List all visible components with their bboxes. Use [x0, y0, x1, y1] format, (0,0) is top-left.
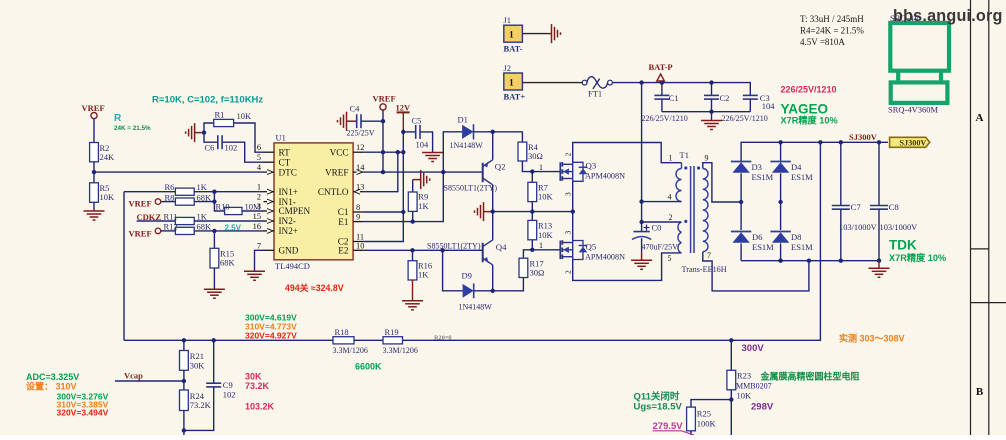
resistor R5 [90, 183, 99, 203]
svg-text:226/25V/1210: 226/25V/1210 [642, 114, 688, 123]
resistor R16 [408, 261, 417, 280]
junction Q4 emitter/D9 [491, 289, 495, 293]
svg-text:VCC: VCC [330, 147, 349, 157]
T1 primary winding 1-4 [676, 169, 682, 202]
svg-text:2: 2 [257, 193, 261, 202]
junction VCC [401, 150, 405, 154]
ground below C0 [641, 252, 643, 260]
svg-text:R12: R12 [164, 222, 178, 232]
transistor Q4 (S8550) [482, 243, 484, 262]
wire J2 to FT1 [522, 82, 582, 84]
svg-text:TL494CD: TL494CD [275, 261, 310, 271]
wire R9 top [412, 180, 414, 192]
junction Q2 emitter rail [491, 130, 495, 134]
svg-text:APM4008N: APM4008N [585, 253, 625, 262]
svg-text:R6: R6 [165, 182, 175, 192]
svg-text:CMPEN: CMPEN [279, 206, 311, 216]
wire Q3 drain [573, 143, 682, 163]
svg-text:IN1+: IN1+ [279, 187, 298, 197]
junction 300V node [729, 338, 733, 342]
resistor R13 [528, 220, 537, 239]
svg-text:Q2: Q2 [495, 162, 506, 172]
wire R7 top [531, 172, 533, 183]
svg-text:470uF/25V: 470uF/25V [642, 243, 679, 252]
wire D4 cathode [780, 142, 782, 162]
resistor R24 [180, 390, 189, 411]
svg-text:3: 3 [564, 192, 573, 196]
svg-text:7: 7 [257, 241, 261, 250]
svg-text:10M: 10M [245, 202, 262, 212]
wire R13 bottom [531, 240, 533, 250]
wire pin1 row left [124, 191, 175, 193]
svg-text:298V: 298V [751, 401, 774, 412]
resistor R2 [90, 143, 99, 162]
svg-text:225/25V: 225/25V [347, 128, 375, 137]
wire R25 bottom [690, 431, 692, 435]
sheet zone divider [971, 302, 1006, 304]
svg-text:R: R [114, 113, 122, 124]
capacitor C4 [356, 114, 358, 128]
svg-text:C7: C7 [851, 202, 862, 212]
wire jog to R10 [214, 192, 224, 211]
mosfet Q5 (APM4008N) [559, 241, 561, 260]
svg-text:1: 1 [539, 163, 543, 172]
wire D3 anode [740, 173, 742, 230]
resistor R4 [518, 142, 527, 161]
svg-text:BAT-P: BAT-P [649, 62, 673, 72]
svg-text:1: 1 [509, 79, 514, 89]
svg-text:SRQ-4V360M: SRQ-4V360M [888, 105, 939, 115]
svg-text:CT: CT [279, 157, 291, 167]
wire output bottom rail [741, 260, 879, 262]
svg-text:ADC=3.325V: ADC=3.325V [26, 372, 79, 382]
wire left sense riser [123, 192, 125, 341]
svg-text:B: B [976, 386, 984, 398]
svg-text:金属膜高精密圆柱型电阻: 金属膜高精密圆柱型电阻 [760, 371, 860, 382]
wire R10 to pin3 [242, 210, 264, 212]
wire D1 anode riser [443, 132, 462, 172]
resistor R15 [210, 248, 219, 268]
svg-text:226/25V/1210: 226/25V/1210 [781, 85, 837, 95]
diode D9 [463, 284, 474, 298]
ground below U1 pin7 [244, 270, 265, 272]
svg-text:R25: R25 [697, 408, 711, 418]
svg-text:VREF: VREF [373, 93, 396, 103]
svg-text:D1: D1 [458, 114, 468, 124]
junction C8 rail [877, 140, 881, 144]
junction VREF/pin14 [381, 170, 385, 174]
capacitor C5 [415, 125, 417, 139]
wire R12 to pin16 [194, 230, 263, 232]
junction R2/R5/DTC [92, 170, 96, 174]
wire D9 anode riser [443, 250, 463, 290]
junction T1 pin2 / C0 [639, 220, 643, 224]
resistor R8 [175, 198, 194, 205]
junction 298V node [729, 397, 733, 401]
capacitor C2 [711, 83, 713, 96]
wire Q5 source to T1 pin5 [573, 253, 682, 281]
svg-text:12V: 12V [396, 102, 412, 112]
svg-text:实测 303～308V: 实测 303～308V [839, 333, 905, 344]
U1 pins [264, 151, 275, 153]
svg-text:24K = 21.5%: 24K = 21.5% [114, 125, 151, 132]
resistor R17 [519, 258, 528, 277]
wire Q5 gate row [532, 249, 560, 251]
capacitor C6 [217, 135, 219, 149]
wire R17 top jog [523, 250, 532, 258]
svg-text:设置： 310V: 设置： 310V [26, 381, 77, 392]
svg-text:C9: C9 [223, 380, 233, 390]
wire T1 pin2 row [642, 221, 682, 223]
svg-text:16: 16 [253, 222, 261, 231]
junction Q3 source [571, 209, 575, 213]
svg-text:Q3: Q3 [586, 161, 597, 171]
wire Q4 collector up [492, 212, 494, 240]
svg-text:68K: 68K [220, 258, 236, 268]
svg-text:15: 15 [253, 212, 261, 221]
junction Q3 gate node [530, 169, 534, 173]
svg-text:1: 1 [539, 241, 543, 250]
svg-text:ES1M: ES1M [752, 172, 774, 182]
svg-text:C0: C0 [652, 222, 662, 232]
svg-text:10: 10 [356, 241, 364, 250]
svg-text:2: 2 [564, 153, 573, 157]
wire D1 cathode to rail [474, 131, 523, 133]
wire pin13 hook [364, 152, 398, 192]
svg-text:494关 ≈324.8V: 494关 ≈324.8V [285, 282, 344, 293]
wire Q2 emitter up [492, 132, 494, 160]
svg-text:320V=3.494V: 320V=3.494V [57, 407, 109, 417]
svg-text:R18: R18 [335, 327, 349, 337]
junction D9 riser tap [440, 248, 444, 252]
diode D6 [732, 232, 749, 243]
junction Vcap node [182, 379, 186, 383]
svg-text:A: A [976, 112, 984, 124]
svg-text:320V=4.927V: 320V=4.927V [245, 331, 297, 341]
ground at J1 (rotated) [549, 33, 552, 35]
wire C9 bottom [184, 387, 214, 431]
svg-text:R4=24K = 21.5%: R4=24K = 21.5% [800, 26, 864, 36]
svg-text:1K: 1K [418, 201, 429, 211]
svg-text:D3: D3 [752, 162, 762, 172]
capacitor C8 [870, 205, 888, 207]
wire Q5 drain [572, 212, 574, 241]
capacitor C1 [661, 83, 663, 96]
svg-text:R11: R11 [164, 212, 178, 222]
svg-text:C4: C4 [350, 104, 361, 114]
svg-text:bbs.angui.org: bbs.angui.org [893, 7, 1003, 25]
wire R21 column top [183, 340, 185, 350]
junction C9 tap [212, 338, 216, 342]
resistor R18 [333, 337, 354, 344]
wire D9 cathode row [474, 278, 524, 291]
resistor R23 [727, 370, 736, 390]
C0 plus sign [644, 225, 650, 231]
wire C4 to VREF column [361, 120, 383, 122]
junction R16 tap [410, 248, 414, 252]
svg-text:J2: J2 [504, 63, 512, 73]
junction C1 top [660, 80, 664, 84]
svg-text:X7R精度 10%: X7R精度 10% [781, 115, 838, 126]
power port BAT-P [657, 74, 665, 81]
wire Q3 source [572, 181, 574, 211]
svg-text:YAGEO: YAGEO [781, 102, 829, 117]
op-amp U1 body (TL494CD) [274, 143, 353, 260]
ground below R15 [204, 288, 225, 290]
wire R7 bottom [531, 202, 533, 212]
svg-text:SJ300V: SJ300V [900, 138, 927, 147]
svg-text:103/1000V: 103/1000V [880, 223, 918, 232]
svg-text:FT1: FT1 [588, 89, 602, 99]
svg-text:2: 2 [564, 270, 573, 274]
svg-text:103.2K: 103.2K [245, 402, 275, 412]
junction C1 out [401, 210, 405, 214]
junction C8 bottom [877, 259, 881, 263]
wire pin16 row to R15 [213, 231, 215, 248]
T1 winding2 dot [684, 220, 687, 223]
junction D4 rail [778, 140, 782, 144]
diode D3 [732, 162, 749, 173]
resistor R7 [528, 182, 537, 201]
svg-text:1K: 1K [197, 212, 208, 222]
mosfet Q3 (APM4008N) [559, 162, 561, 181]
wire T1 pin7 [703, 252, 809, 291]
svg-text:5: 5 [668, 254, 672, 263]
wire pin14 row to Q2 base [364, 171, 483, 173]
svg-text:10K: 10K [100, 192, 116, 202]
port SJ300V [890, 137, 930, 147]
svg-text:R1: R1 [215, 110, 225, 120]
svg-text:73.2K: 73.2K [245, 381, 270, 391]
svg-text:ES1M: ES1M [791, 172, 813, 182]
svg-text:30Ω: 30Ω [530, 268, 545, 278]
junction Q2/Q4 mid [491, 209, 495, 213]
resistor R21 [180, 351, 189, 371]
wire R9 bottom [412, 211, 414, 221]
wire ground node to C6 [204, 133, 218, 143]
wire Q3 gate row [532, 171, 560, 173]
svg-text:BAT-: BAT- [504, 44, 523, 54]
wire BAT+ riser to T1 center taps [641, 83, 643, 222]
wire ground node to R1 [204, 123, 214, 133]
junction R6/R8/R10 [212, 190, 216, 194]
capacitor C3 [743, 94, 758, 96]
VREF port circle [91, 113, 97, 119]
svg-text:APM4008N: APM4008N [585, 172, 625, 181]
svg-text:1: 1 [669, 153, 673, 162]
svg-text:D4: D4 [791, 162, 802, 172]
wire C5 to ground [420, 132, 433, 153]
svg-text:R8: R8 [165, 192, 175, 202]
resistor R10 [225, 207, 242, 214]
svg-text:3.3M/1206: 3.3M/1206 [383, 346, 418, 355]
svg-text:E1: E1 [338, 217, 349, 227]
wire R15 to ground [213, 268, 215, 289]
svg-text:ES1M: ES1M [752, 242, 774, 252]
wire C8 bottom [878, 209, 880, 261]
wire DTC row (pin4) [94, 171, 264, 173]
junction pin7 riser [807, 259, 811, 263]
T1 core [690, 166, 692, 253]
junction BAT+ riser [639, 80, 643, 84]
wire VCC/outputs column [364, 132, 404, 242]
svg-text:R=10K, C=102, f=110KHz: R=10K, C=102, f=110KHz [152, 95, 263, 106]
VREF mid circle [380, 104, 386, 110]
svg-text:J1: J1 [504, 15, 512, 25]
junction VREF/C4 [381, 119, 385, 123]
svg-text:1K: 1K [418, 270, 429, 280]
svg-text:3.3M/1206: 3.3M/1206 [333, 346, 368, 355]
wire R16 to ground [412, 280, 414, 301]
wire pin12 row [364, 151, 404, 153]
junction R1/C6/ground [202, 130, 206, 134]
resistor R19 [383, 337, 403, 344]
wire 12V row to C5 [403, 131, 415, 133]
svg-text:GND: GND [279, 246, 299, 256]
wire R4 bottom jog [522, 161, 532, 172]
junction D4/D8 [778, 200, 782, 204]
wire C9 column [213, 340, 215, 383]
ground at C4 (rotated) [346, 112, 348, 131]
svg-text:6: 6 [257, 143, 261, 152]
svg-text:11: 11 [356, 233, 364, 242]
T1 secondary winding 9-7 [703, 169, 708, 252]
wire pin9 row [364, 172, 444, 222]
wire pin7 to ground [255, 250, 264, 271]
svg-text:IN2+: IN2+ [279, 226, 298, 236]
svg-text:T1: T1 [680, 150, 689, 160]
sheet zone tick [971, 248, 989, 250]
svg-text:100K: 100K [697, 418, 717, 428]
resistor R11 [175, 217, 194, 224]
resistor R12 [175, 227, 194, 234]
junction C2 bottom [709, 110, 713, 114]
svg-text:9: 9 [356, 213, 360, 222]
wire 300V sense riser [124, 142, 820, 340]
svg-text:R10: R10 [216, 202, 230, 212]
svg-text:X7R精度 10%: X7R精度 10% [889, 252, 946, 263]
wire R8 right jog [194, 201, 214, 203]
ground below output rail [878, 261, 880, 269]
svg-text:DTC: DTC [279, 167, 297, 177]
sheet border outer line [988, 0, 990, 435]
connector J2 [504, 73, 523, 90]
T1 primary winding 2-5 [678, 222, 682, 253]
junction 12V node [401, 130, 405, 134]
wire R16 top [412, 250, 414, 260]
wire rail to R4 [521, 132, 523, 142]
svg-text:BAT+: BAT+ [504, 92, 526, 102]
wire D8 anode [780, 243, 782, 260]
component outline SRQ-4V360M [890, 23, 949, 71]
junction bottom left [182, 428, 186, 432]
junction VREF/VCC [381, 150, 385, 154]
svg-text:104: 104 [762, 101, 776, 111]
svg-text:D9: D9 [462, 270, 472, 280]
svg-text:104: 104 [416, 140, 430, 150]
svg-text:C1: C1 [669, 93, 679, 103]
svg-text:R23: R23 [737, 371, 751, 381]
ground at mid rail (rotated) [483, 202, 485, 221]
svg-text:C6: C6 [205, 143, 215, 153]
wire R1 to pin6 [234, 123, 264, 152]
svg-text:VREF: VREF [129, 199, 152, 209]
svg-text:73.2K: 73.2K [190, 400, 212, 410]
svg-text:10K: 10K [237, 111, 253, 121]
wire T1 pin9 [703, 163, 741, 202]
svg-text:Q4: Q4 [496, 242, 507, 252]
diode D4 [772, 162, 789, 173]
junction D1 anode tap [441, 170, 445, 174]
junction R7/R13 [530, 209, 534, 213]
svg-text:5: 5 [257, 153, 261, 162]
wire R13 top [531, 212, 533, 221]
wire C6 to pin5 [222, 142, 263, 162]
wire D4 anode [780, 173, 782, 230]
svg-text:Trans-EE16H: Trans-EE16H [682, 265, 727, 274]
junction C2 top [709, 80, 713, 84]
ground below C2 [711, 112, 713, 121]
junction R9/E1 [411, 219, 415, 223]
svg-text:1: 1 [509, 31, 514, 41]
resistor R9 [408, 192, 417, 211]
capacitor C7 [832, 205, 850, 207]
svg-text:C5: C5 [412, 116, 422, 126]
svg-text:1N4148W: 1N4148W [459, 302, 493, 311]
diode D8 [772, 232, 789, 243]
junction D8 bottom [778, 259, 782, 263]
svg-text:12: 12 [356, 143, 364, 152]
ground below R5 [84, 210, 105, 212]
svg-text:10K: 10K [737, 390, 753, 400]
svg-text:C2: C2 [720, 93, 730, 103]
svg-text:3: 3 [564, 231, 573, 235]
wire Vcap [115, 380, 184, 382]
wire R23 bottom [730, 390, 732, 435]
junction sense rail [818, 140, 822, 144]
wire BAT+ rail [612, 83, 750, 96]
svg-text:10K: 10K [538, 192, 554, 202]
svg-text:1N4148W: 1N4148W [450, 141, 484, 150]
svg-text:103/1000V: 103/1000V [839, 223, 877, 232]
wire C1-C3 bottom rail [662, 111, 750, 113]
junction C7 rail [839, 140, 843, 144]
capacitor C0 (electrolytic) [641, 222, 643, 232]
svg-text:D8: D8 [791, 232, 801, 242]
svg-text:7: 7 [707, 251, 711, 260]
svg-text:U1: U1 [276, 133, 286, 143]
diode D1 [462, 125, 473, 139]
junction Q5 gate node [530, 248, 534, 252]
svg-text:102: 102 [225, 143, 238, 153]
svg-text:VREF: VREF [325, 167, 349, 177]
resistor R1 [214, 119, 234, 126]
junction D3/D6/T1pin9 [739, 200, 743, 204]
fuse FT1 [582, 80, 587, 85]
svg-text:VREF: VREF [129, 228, 152, 238]
svg-text:6600K: 6600K [355, 362, 382, 372]
svg-text:10K: 10K [538, 230, 554, 240]
ground below R16 [402, 300, 423, 302]
wire Q4 emitter down [492, 265, 494, 291]
wire to R25 [691, 400, 731, 408]
capacitor C9 [206, 382, 221, 384]
svg-text:D6: D6 [752, 232, 762, 242]
T1 winding1 dot [684, 166, 687, 169]
svg-text:24K: 24K [100, 152, 116, 162]
wire J1 to ground [522, 33, 549, 35]
svg-text:Ugs=18.5V: Ugs=18.5V [634, 401, 683, 412]
